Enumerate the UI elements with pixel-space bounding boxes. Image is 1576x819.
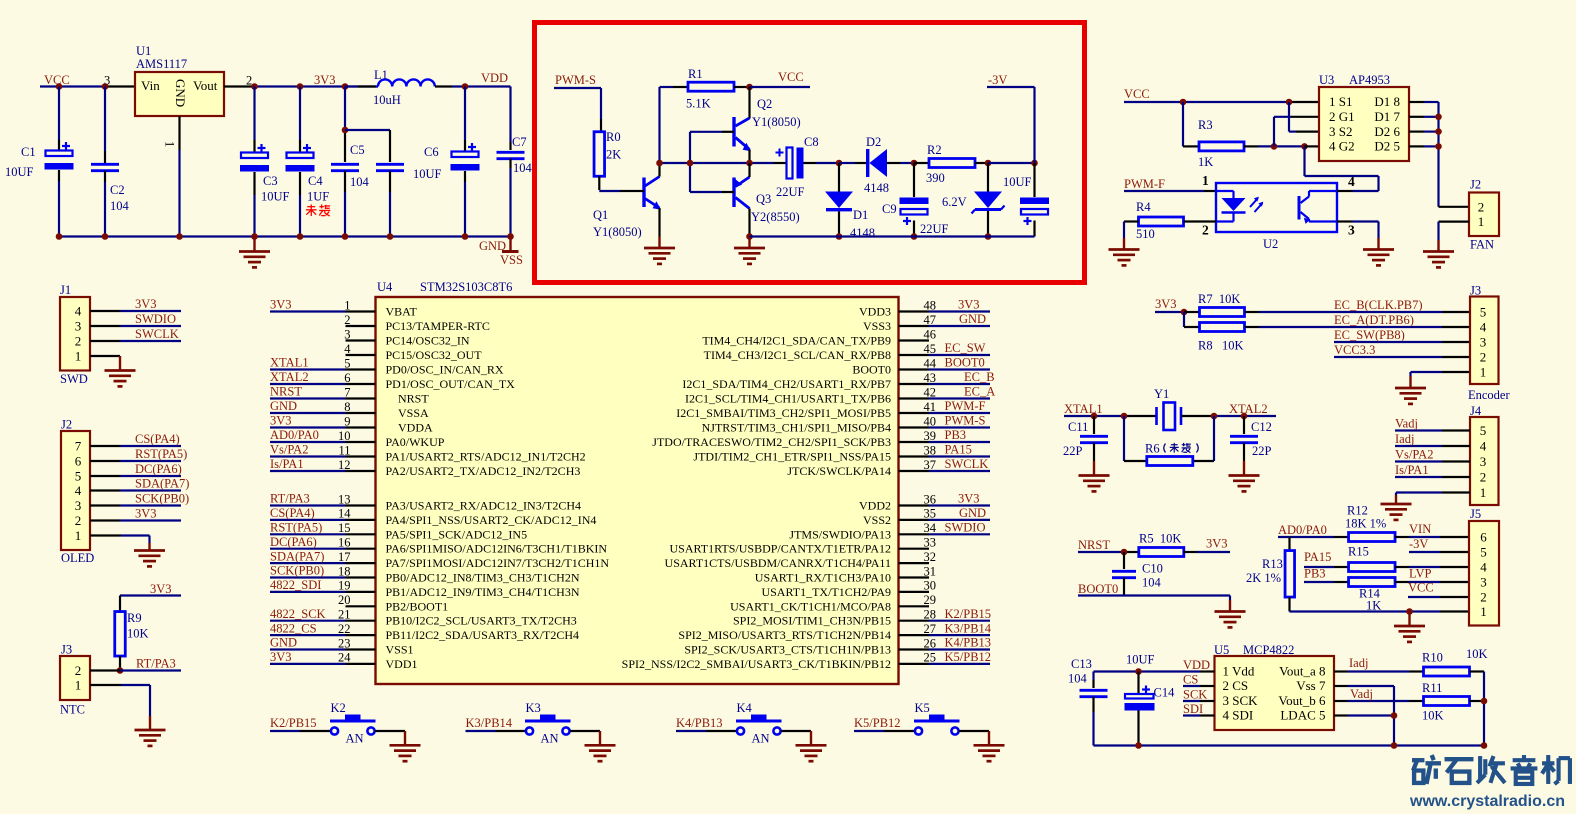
svg-text:TIM4_CH3/I2C1_SCL/CAN_RX/PB8: TIM4_CH3/I2C1_SCL/CAN_RX/PB8 <box>704 348 891 362</box>
svg-text:D2 5: D2 5 <box>1374 139 1400 154</box>
pin name VDD2 <box>859 499 891 513</box>
J2 pin number 5 <box>75 469 82 484</box>
label K5 <box>915 701 930 715</box>
svg-text:6: 6 <box>75 454 82 469</box>
node rail U1 <box>176 233 183 240</box>
svg-text:AP4953: AP4953 <box>1349 73 1390 87</box>
svg-text:1: 1 <box>1478 214 1485 229</box>
svg-text:Y1(8050): Y1(8050) <box>752 115 801 129</box>
wire SCK <box>1183 700 1215 702</box>
label C3 <box>263 174 278 188</box>
svg-text:36: 36 <box>924 492 937 506</box>
pin name VSS1 <box>386 643 414 657</box>
svg-text:STM32S103C8T6: STM32S103C8T6 <box>420 280 512 294</box>
value zener 6.2V <box>942 195 967 209</box>
svg-text:U1: U1 <box>136 44 151 58</box>
svg-text:Vadj: Vadj <box>1350 687 1373 701</box>
pin name JTDO/TRACESWO/TIM2_CH2/SPI1_SCK/PB3 <box>652 435 891 449</box>
pin name PB1/ADC12_IN9/TIM3_CH4/T1CH3N <box>386 585 580 599</box>
svg-text:4: 4 <box>75 483 82 498</box>
resistor R5 <box>1139 548 1184 557</box>
net label PWM-S <box>555 73 596 87</box>
svg-text:40: 40 <box>924 414 937 428</box>
resistor R1 <box>688 82 734 91</box>
svg-text:VSS: VSS <box>500 253 523 267</box>
svg-text:VDD: VDD <box>481 71 508 85</box>
wire U1 GND pin <box>178 116 180 237</box>
node rail C5b <box>387 233 394 240</box>
wire BOOT0 <box>1078 596 1230 601</box>
pin name SPI2_MOSI/TIM1_CH3N/PB15 <box>733 614 891 628</box>
J5 pin number 6 <box>1480 530 1487 545</box>
net label VCC (red box) <box>778 70 804 84</box>
crystal Y1 <box>1157 403 1182 431</box>
svg-text:22UF: 22UF <box>920 222 949 236</box>
svg-text:SDA(PA7): SDA(PA7) <box>270 549 324 563</box>
node xtal R6 right <box>1211 413 1218 420</box>
svg-text:4: 4 <box>75 304 82 319</box>
wire J2-OLED pin 4 <box>90 489 181 491</box>
svg-text:4822_CS: 4822_CS <box>270 621 317 635</box>
node rail C9 <box>911 233 918 240</box>
node bus6 <box>1435 128 1442 135</box>
wire R15 out <box>1395 566 1469 568</box>
svg-text:J5: J5 <box>1470 507 1481 521</box>
svg-text:43: 43 <box>924 371 937 385</box>
net label LVP <box>1409 566 1432 580</box>
svg-text:23: 23 <box>338 636 351 650</box>
svg-text:DC(PA6): DC(PA6) <box>135 462 182 476</box>
svg-text:3V3: 3V3 <box>1155 297 1177 311</box>
resistor R0 <box>594 132 605 177</box>
net label K4/PB13 pin 26 <box>945 636 992 650</box>
wire J2-OLED pin 7 <box>90 445 181 447</box>
capacitor C14 <box>1125 672 1155 746</box>
svg-text:Q1: Q1 <box>593 208 608 222</box>
svg-text:VDD: VDD <box>1183 658 1210 672</box>
svg-text:2: 2 <box>75 513 82 528</box>
node G2-U2 <box>1301 143 1308 150</box>
value C2 104 <box>110 199 130 213</box>
node output Q1 <box>656 160 663 167</box>
svg-text:L1: L1 <box>374 68 388 82</box>
node C14 top <box>1135 668 1142 675</box>
svg-text:38: 38 <box>924 443 937 457</box>
svg-text:22UF: 22UF <box>776 185 805 199</box>
svg-text:2: 2 <box>75 334 82 349</box>
label R14 <box>1359 587 1381 601</box>
net label RST(PA5) pin 15 <box>270 521 322 535</box>
wire PWM-S <box>554 88 601 132</box>
wire R10 out <box>1470 672 1485 746</box>
pin 37 U4 stub <box>899 458 991 472</box>
svg-text:29: 29 <box>924 593 937 607</box>
node zener <box>985 160 992 167</box>
svg-text:8: 8 <box>344 400 350 414</box>
wire R7 in <box>1184 311 1199 313</box>
svg-text:EC_SW: EC_SW <box>945 341 986 355</box>
label J3 (ntc) <box>61 643 72 657</box>
svg-text:R11: R11 <box>1422 681 1442 695</box>
ground J1 <box>105 356 136 386</box>
pin name I2C1_SMBAI/TIM3_CH2/SPI1_MOSI/PB5 <box>676 406 891 420</box>
watermark url <box>1409 793 1565 810</box>
svg-text:4: 4 <box>344 342 351 356</box>
svg-text:D1 8: D1 8 <box>1374 94 1400 109</box>
net label XTAL2 pin 6 <box>270 370 309 384</box>
svg-text:I2C1_SMBAI/TIM3_CH2/SPI1_MOSI/: I2C1_SMBAI/TIM3_CH2/SPI1_MOSI/PB5 <box>676 406 891 420</box>
svg-text:Vs/PA2: Vs/PA2 <box>270 443 308 457</box>
svg-text:4822_SCK: 4822_SCK <box>270 607 326 621</box>
net label VDD (dac) <box>1183 658 1210 672</box>
wire 3V3 enc <box>1155 311 1184 313</box>
node rail D1 <box>836 233 843 240</box>
svg-text:EC_A(DT.PB6): EC_A(DT.PB6) <box>1334 313 1414 327</box>
label C13 <box>1071 657 1092 671</box>
label NTC <box>60 703 85 717</box>
svg-text:22P: 22P <box>1063 444 1083 458</box>
net label K2/PB15 <box>270 716 317 730</box>
svg-text:AD0/PA0: AD0/PA0 <box>270 428 319 442</box>
svg-text:41: 41 <box>924 400 937 414</box>
svg-text:R10: R10 <box>1422 651 1443 665</box>
diode D2 4148 <box>866 149 900 177</box>
svg-text:VDDA: VDDA <box>398 421 433 435</box>
svg-text:BOOT0: BOOT0 <box>1078 582 1118 596</box>
pin name TIM4_CH4/I2C1_SDA/CAN_TX/PB9 <box>702 334 891 348</box>
pin name TIM4_CH3/I2C1_SCL/CAN_RX/PB8 <box>704 348 891 362</box>
svg-text:2: 2 <box>1480 470 1487 485</box>
wire U2 pin3 <box>1337 222 1379 239</box>
label D1 <box>853 208 868 222</box>
svg-text:14: 14 <box>338 507 351 521</box>
label U5 <box>1214 643 1229 657</box>
resistor R6 <box>1147 457 1193 466</box>
svg-text:Iadj: Iadj <box>1395 432 1414 446</box>
wire U3 pin7 <box>1409 116 1439 118</box>
pin name SPI2_MISO/USART3_RTS/T1CH2N/PB14 <box>678 628 891 642</box>
pin 33 U4 stub <box>899 536 937 550</box>
ground J3 encoder <box>1395 376 1426 404</box>
ground Q1 <box>644 237 675 264</box>
svg-text:USART1_CK/T1CH1/MCO/PA8: USART1_CK/T1CH1/MCO/PA8 <box>730 599 891 613</box>
J3-enc pin number 4 <box>1480 320 1487 335</box>
wire R1 left drop <box>658 87 660 163</box>
svg-text:JTCK/SWCLK/PA14: JTCK/SWCLK/PA14 <box>787 464 891 478</box>
pin 1 U1 rotated <box>163 141 177 147</box>
svg-text:PB0/ADC12_IN8/TIM3_CH3/T1CH2N: PB0/ADC12_IN8/TIM3_CH3/T1CH2N <box>386 571 580 585</box>
mosfet U3 AP4953 body <box>1319 87 1409 161</box>
watermark yin <box>1511 755 1538 784</box>
label C2 <box>110 183 125 197</box>
pin 15 U4 stub <box>270 521 376 535</box>
svg-text:2: 2 <box>1202 223 1209 238</box>
net label SWDIO pin 34 <box>945 521 986 535</box>
svg-text:USART1CTS/USBDM/CANRX/T1CH4/PA: USART1CTS/USBDM/CANRX/T1CH4/PA11 <box>665 556 891 570</box>
node xtal C12 <box>1241 413 1248 420</box>
net label SWDIO <box>135 312 176 326</box>
U5 row2 <box>1223 678 1326 693</box>
wire Q2 emitter <box>748 150 750 164</box>
value C7 104 <box>513 161 533 175</box>
svg-text:K4: K4 <box>737 701 753 715</box>
U2 pin number 2 <box>1202 223 1209 238</box>
svg-text:10uH: 10uH <box>373 93 401 107</box>
U3 pin row 2 G1 / D1 7 <box>1329 109 1400 124</box>
ground Q3 rail <box>734 237 765 264</box>
pin 23 U4 stub <box>270 636 376 650</box>
svg-text:PC14/OSC32_IN: PC14/OSC32_IN <box>386 334 470 348</box>
svg-text:D2 6: D2 6 <box>1374 124 1400 139</box>
pin name PC15/OSC32_OUT <box>386 348 483 362</box>
net label AD0/PA0 pin 10 <box>270 428 319 442</box>
J3 pin number 1 <box>75 678 82 693</box>
net label Vs/PA2 pin 11 <box>270 443 308 457</box>
svg-text:VDD3: VDD3 <box>859 305 891 319</box>
svg-text:PC13/TAMPER-RTC: PC13/TAMPER-RTC <box>386 319 490 333</box>
svg-text:45: 45 <box>924 342 937 356</box>
power port 3V3 <box>314 73 336 87</box>
resistor R3 <box>1199 142 1244 151</box>
value D1 4148 <box>850 226 875 240</box>
ground U2 pin3 <box>1363 238 1394 265</box>
capacitor C5 <box>331 87 359 237</box>
svg-text:1K: 1K <box>1198 155 1213 169</box>
node VCC-S2 <box>1286 99 1293 106</box>
node C4 <box>297 83 304 90</box>
net label NRST pin 7 <box>270 385 302 399</box>
svg-text:Y1: Y1 <box>1154 387 1169 401</box>
svg-text:6.2V: 6.2V <box>942 195 967 209</box>
J2 pin number 6 <box>75 454 82 469</box>
node RT junction <box>117 667 124 674</box>
wire J3-NTC pin1 <box>90 685 150 716</box>
J5 pin number 5 <box>1480 545 1487 560</box>
svg-text:J3: J3 <box>61 643 72 657</box>
svg-text:D1 7: D1 7 <box>1374 109 1400 124</box>
svg-text:4 G2: 4 G2 <box>1329 139 1355 154</box>
J3-enc pin number 1 <box>1480 365 1487 380</box>
J2 pin number 2 <box>75 513 82 528</box>
svg-text:19: 19 <box>338 579 351 593</box>
value MCP4822 <box>1243 643 1294 657</box>
value R0 2K <box>606 148 621 162</box>
wire J2-OLED pin 2 <box>90 519 181 521</box>
net label CS (dac) <box>1183 673 1198 687</box>
svg-text:2K 1%: 2K 1% <box>1246 571 1281 585</box>
svg-text:Y1(8050): Y1(8050) <box>593 225 642 239</box>
wire U3 pin8 <box>1409 101 1439 103</box>
ground J5 <box>1394 612 1425 642</box>
value C14 10UF <box>1126 653 1155 667</box>
label U3 <box>1319 73 1334 87</box>
svg-text:4148: 4148 <box>864 181 889 195</box>
node rail Q3 <box>746 233 753 240</box>
node C5 branch <box>342 83 349 90</box>
svg-text:26: 26 <box>924 636 937 650</box>
svg-text:DC(PA6): DC(PA6) <box>270 535 317 549</box>
svg-text:10UF: 10UF <box>261 190 290 204</box>
net label VCC (fan) <box>1124 87 1150 101</box>
wire R12 out VIN <box>1395 536 1469 538</box>
svg-text:3: 3 <box>104 74 110 88</box>
wire J2 pin1 <box>1439 222 1470 240</box>
resistor R13 <box>1285 551 1295 598</box>
J5 pin number 1 <box>1480 604 1487 619</box>
wire J1 pin1 <box>90 355 120 357</box>
net label -3V (red box) <box>988 73 1007 87</box>
svg-text:Is/PA1: Is/PA1 <box>270 457 304 471</box>
svg-text:C13: C13 <box>1071 657 1092 671</box>
ground K5 <box>974 731 1005 761</box>
wire U2 pin4 to G2 <box>1305 146 1379 191</box>
svg-text:12: 12 <box>338 458 351 472</box>
svg-text:AN: AN <box>346 732 364 746</box>
wire Q3 emitter <box>748 163 750 177</box>
U5 row1 <box>1223 664 1326 679</box>
pin name PD0/OSC_IN/CAN_RX <box>386 363 504 377</box>
pin name PC13/TAMPER-RTC <box>386 319 490 333</box>
ground J3 NTC <box>135 716 166 746</box>
svg-text:PWM-F: PWM-F <box>1124 177 1165 191</box>
pin 42 U4 stub <box>899 385 991 399</box>
svg-text:K5/PB12: K5/PB12 <box>945 650 992 664</box>
svg-text:39: 39 <box>924 429 937 443</box>
wire Vadj <box>1334 700 1424 702</box>
pin name USART1CTS/USBDM/CANRX/T1CH4/PA11 <box>665 556 891 570</box>
svg-text:Vs/PA2: Vs/PA2 <box>1395 448 1433 462</box>
svg-text:CS(PA4): CS(PA4) <box>135 432 180 446</box>
pin name VSS2 <box>863 513 891 527</box>
wire dac bottom rail <box>1094 744 1485 746</box>
pin 46 U4 stub <box>899 327 937 341</box>
resistor R7 <box>1200 308 1245 317</box>
J1 pin number 1 <box>75 349 82 364</box>
label K2 <box>331 701 346 715</box>
wire VCC3.3 <box>1334 356 1470 358</box>
pin 14 U4 stub <box>270 507 376 521</box>
wire fan drain bus <box>1437 102 1439 207</box>
svg-text:C10: C10 <box>1142 562 1163 576</box>
wire Q3 collector <box>748 209 750 237</box>
net label DC(PA6) pin 16 <box>270 535 317 549</box>
label C8 <box>804 135 819 149</box>
svg-text:NJTRST/TIM3_CH1/SPI1_MISO/PB4: NJTRST/TIM3_CH1/SPI1_MISO/PB4 <box>702 421 891 435</box>
net label SCK(PB0) (oled) <box>135 492 189 506</box>
label J2 (fan) <box>1470 178 1481 192</box>
svg-text:PA0/WKUP: PA0/WKUP <box>386 435 445 449</box>
svg-text:PD1/OSC_OUT/CAN_TX: PD1/OSC_OUT/CAN_TX <box>386 377 516 391</box>
svg-text:3: 3 <box>344 327 350 341</box>
net label BOOT0 pin 44 <box>945 356 985 370</box>
svg-text:LVP: LVP <box>1409 566 1432 580</box>
pin 48 U4 stub <box>899 298 991 312</box>
capacitor C11 <box>1080 416 1108 463</box>
svg-text:10K: 10K <box>1422 709 1444 723</box>
net label PWM-F <box>1124 177 1165 191</box>
svg-text:C9: C9 <box>882 202 897 216</box>
J4 pin number 3 <box>1480 454 1487 469</box>
net label CS(PA4) pin 14 <box>270 506 315 520</box>
svg-text:104: 104 <box>110 199 130 213</box>
svg-text:1: 1 <box>75 528 82 543</box>
resistor R14 <box>1349 578 1396 587</box>
svg-text:18K 1%: 18K 1% <box>1345 516 1386 530</box>
pin name VDD1 <box>386 657 418 671</box>
label R5 10K <box>1139 532 1181 546</box>
net label PB3 pin 39 <box>945 428 967 442</box>
svg-text:2: 2 <box>75 663 82 678</box>
value R3 1K <box>1198 155 1213 169</box>
connector J3 Encoder body <box>1470 297 1499 385</box>
svg-text:JTDO/TRACESWO/TIM2_CH2/SPI1_SC: JTDO/TRACESWO/TIM2_CH2/SPI1_SCK/PB3 <box>652 435 891 449</box>
svg-text:Q3: Q3 <box>756 192 771 206</box>
svg-text:VSS1: VSS1 <box>386 643 414 657</box>
J2 pin number 2 <box>1478 199 1485 214</box>
svg-text:AD0/PA0: AD0/PA0 <box>1278 523 1327 537</box>
pin name NRST <box>398 392 429 406</box>
net label 4822_SDI pin 19 <box>270 578 321 592</box>
label Encoder <box>1468 388 1510 402</box>
capacitor C3 <box>240 87 269 237</box>
svg-text:J4: J4 <box>1470 404 1482 418</box>
svg-text:SWD: SWD <box>60 372 88 386</box>
net label Vadj <box>1350 687 1373 701</box>
wire R2 right <box>975 162 988 164</box>
svg-text:R4: R4 <box>1136 200 1151 214</box>
net label Iadj (J4) <box>1395 432 1414 446</box>
label C14 <box>1154 686 1176 700</box>
svg-text:C5: C5 <box>350 143 365 157</box>
svg-text:3V3: 3V3 <box>270 650 292 664</box>
pin 7 U4 stub <box>270 385 376 399</box>
svg-text:1 Vdd: 1 Vdd <box>1223 664 1255 679</box>
ground K4 <box>796 731 827 761</box>
node rail R10R11 <box>1481 742 1488 749</box>
net label 3V3 (boot) <box>1206 537 1228 551</box>
svg-text:K3: K3 <box>526 701 541 715</box>
svg-text:4 SDI: 4 SDI <box>1223 708 1254 723</box>
power port GND label <box>479 239 506 253</box>
pin 31 U4 stub <box>899 564 937 578</box>
svg-text:RT/PA3: RT/PA3 <box>270 492 310 506</box>
value R13 2K 1% <box>1246 571 1281 585</box>
net label 3V3 (ntc) <box>150 582 172 596</box>
J3-enc pin number 3 <box>1480 335 1487 350</box>
svg-text:30: 30 <box>924 579 937 593</box>
value Q1 Y1(8050) <box>593 225 642 239</box>
value C10 104 <box>1142 576 1162 590</box>
capacitor 10UF (-3V) <box>1020 163 1049 237</box>
wire base ladder <box>690 132 722 192</box>
resistor R8 <box>1200 323 1245 332</box>
svg-text:10UF: 10UF <box>413 167 442 181</box>
net label EC_B(CLK.PB7) <box>1334 298 1423 312</box>
svg-text:VIN: VIN <box>1409 522 1431 536</box>
svg-text:6: 6 <box>344 371 350 385</box>
svg-text:SCK: SCK <box>1183 687 1207 701</box>
wire U3 pin5 <box>1409 145 1439 147</box>
svg-text:PA5/SPI1_SCK/ADC12_IN5: PA5/SPI1_SCK/ADC12_IN5 <box>386 527 528 541</box>
svg-text:1: 1 <box>1480 485 1487 500</box>
svg-text:LDAC 5: LDAC 5 <box>1280 708 1325 723</box>
svg-text:SPI2_SCK/USART3_CTS/T1CH1N/PB1: SPI2_SCK/USART3_CTS/T1CH1N/PB13 <box>684 643 891 657</box>
pin 17 U4 stub <box>270 550 376 564</box>
wire R5 out <box>1184 551 1231 553</box>
pin 25 U4 stub <box>899 651 991 665</box>
svg-text:D2: D2 <box>866 135 881 149</box>
net label EC_A(DT.PB6) <box>1334 313 1414 327</box>
